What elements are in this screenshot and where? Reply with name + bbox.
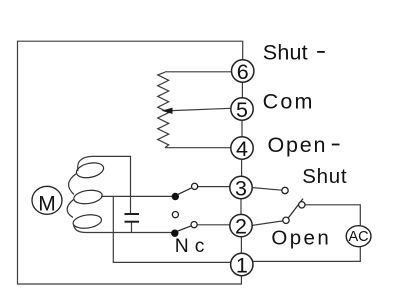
switch S1 open contact <box>172 212 178 218</box>
terminal 5 <box>231 98 253 122</box>
svg-text:Com: Com <box>263 89 315 113</box>
wire motor middle tap <box>101 195 172 197</box>
wire contact to terminal 2 <box>197 224 230 226</box>
svg-text:3: 3 <box>235 176 247 200</box>
terminal 3 <box>230 176 252 200</box>
wire bus segment 6-5 <box>241 82 243 98</box>
svg-text:6: 6 <box>237 60 249 84</box>
wire motor top winding to capacitor <box>78 156 131 213</box>
wire terminal 3 to shut contact <box>252 188 282 191</box>
svg-text:Open: Open <box>268 133 328 157</box>
svg-text:4: 4 <box>236 137 248 161</box>
switch S3 shut contact <box>282 187 288 193</box>
resistor RP potentiometer zigzag <box>158 72 169 147</box>
switch S1 contact to terminal 3 <box>192 183 198 189</box>
wire terminal 2 to open contact <box>252 221 283 226</box>
svg-text:Nc: Nc <box>175 236 211 257</box>
svg-text:Shut: Shut <box>263 41 308 65</box>
wire switch common to AC source <box>305 205 360 226</box>
terminal 4 <box>231 137 253 161</box>
switch S3 open contact <box>283 217 289 223</box>
wire contact to terminal 3 <box>198 186 230 188</box>
wire bus segment 3-2 <box>240 199 242 215</box>
wire motor common down to terminal 1 <box>113 196 231 262</box>
wire bus segment 4-3 <box>241 159 243 176</box>
wire bus segment 5-4 <box>241 120 243 137</box>
switch S2 lower limit common dot <box>171 230 178 237</box>
switch S1 lever <box>178 188 192 195</box>
terminal 1 <box>231 253 253 277</box>
terminal 6 <box>232 60 254 84</box>
svg-text:2: 2 <box>235 214 247 238</box>
svg-text:5: 5 <box>236 98 248 122</box>
switch S2 contact to terminal 2 <box>191 222 197 228</box>
motor winding coil loops <box>67 161 105 230</box>
wire capacitor bottom lead <box>131 223 133 233</box>
wire bus segment 2-1 <box>240 237 242 254</box>
svg-text:AC: AC <box>349 229 369 245</box>
wire housing loop from terminal 6 around left side to terminal 1 <box>18 41 243 284</box>
switch S1 upper limit common dot <box>172 193 179 200</box>
terminal 2 <box>230 214 252 238</box>
wire wiper arm terminal 5 to arrow <box>172 108 231 110</box>
switch S2 lever <box>178 226 192 231</box>
potentiometer wiper arrowhead <box>162 108 173 114</box>
wire motor bottom winding <box>74 225 173 233</box>
AC source circle <box>346 226 371 247</box>
svg-text:1: 1 <box>236 253 248 277</box>
wire terminal 6 to potentiometer top <box>165 71 232 73</box>
switch S3 lever <box>288 199 303 218</box>
svg-text:Shut: Shut <box>302 165 347 188</box>
wire AC source to terminal 1 <box>253 247 361 262</box>
wire terminal 4 to potentiometer bottom <box>165 147 231 149</box>
svg-text:Open: Open <box>271 227 331 250</box>
motor M1 circle <box>32 186 62 215</box>
capacitor C1 plates <box>125 214 140 222</box>
switch S3 common contact <box>299 202 305 208</box>
svg-text:M: M <box>38 193 56 216</box>
